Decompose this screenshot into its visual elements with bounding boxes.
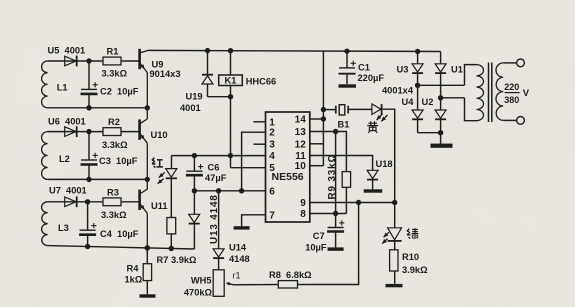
ground R10 <box>386 284 403 287</box>
node rail C1 <box>344 48 349 53</box>
svg-text:V: V <box>523 88 530 99</box>
node R7 bottom <box>169 246 174 251</box>
svg-text:220µF: 220µF <box>358 73 385 83</box>
transformer core <box>489 63 492 123</box>
wire Vcc top rail <box>148 50 441 51</box>
pin 8 number <box>300 209 306 220</box>
diode U2 <box>422 97 447 133</box>
pin 5 wire <box>231 167 266 169</box>
svg-text:14: 14 <box>295 115 307 126</box>
svg-text:R7 3.9kΩ: R7 3.9kΩ <box>157 255 198 265</box>
node C6 bottom <box>192 188 197 193</box>
svg-text:R8 6.8kΩ: R8 6.8kΩ <box>269 270 312 280</box>
svg-text:10µF: 10µF <box>305 242 327 252</box>
diode U1 <box>435 52 463 98</box>
diode U7 4001 <box>48 185 103 207</box>
svg-text:3: 3 <box>269 140 275 151</box>
svg-text:9: 9 <box>300 198 306 209</box>
node R4 top <box>145 245 150 250</box>
wire AC1 to transformer <box>418 84 465 86</box>
node rail bridge <box>415 49 420 54</box>
pin 1 stub <box>254 121 266 123</box>
svg-text:C1: C1 <box>358 63 370 73</box>
terminal bottom <box>517 117 525 125</box>
node pin13 junction <box>333 129 338 134</box>
wiper arrow r1 <box>226 271 241 286</box>
capacitor C6 47uF <box>186 156 227 191</box>
transistor U9 9014 <box>140 49 148 108</box>
wire ground bottom rail <box>48 246 195 249</box>
pin 7 number <box>269 210 275 221</box>
inductor L1 <box>42 61 68 108</box>
node pin6/U14 <box>216 188 221 193</box>
svg-text:L3: L3 <box>58 223 69 233</box>
wire base <box>121 60 139 62</box>
label U10 <box>151 130 168 140</box>
pin 3 stub <box>254 143 266 145</box>
node U10 emitter <box>145 177 150 182</box>
ground C1 <box>338 84 356 87</box>
svg-text:9014x3: 9014x3 <box>150 69 181 79</box>
wire stage1 bottom rail <box>48 107 148 109</box>
svg-text:7: 7 <box>269 210 275 221</box>
resistor R4 1k <box>125 248 152 294</box>
svg-text:WH5: WH5 <box>191 276 212 286</box>
node trigger/K1 <box>228 153 233 158</box>
svg-text:R3: R3 <box>107 187 119 197</box>
pin 12 wire <box>310 143 324 145</box>
svg-text:NE556: NE556 <box>272 171 304 183</box>
node pin6/pin2 <box>239 188 244 193</box>
terminal top <box>517 59 525 67</box>
pin 5 number <box>269 163 275 174</box>
svg-text:220: 220 <box>504 82 519 92</box>
label 4001x4 <box>382 86 414 96</box>
node pin8 junction <box>333 211 338 216</box>
svg-text:U2: U2 <box>422 97 434 107</box>
wire AC2 to transformer <box>441 97 465 99</box>
capacitor C7 10uF <box>305 214 344 253</box>
svg-text:10: 10 <box>295 161 307 172</box>
pin 8 wire <box>310 213 347 215</box>
svg-text:C4 10µF: C4 10µF <box>100 229 139 239</box>
svg-text:U19: U19 <box>186 92 203 102</box>
label 220/380V <box>504 82 530 105</box>
resistor R9 33k <box>327 132 351 214</box>
resistor R2 3.3k <box>102 117 128 150</box>
LED green <box>382 203 402 250</box>
capacitor C1 220uF <box>339 51 385 84</box>
svg-text:3.3kΩ: 3.3kΩ <box>101 210 127 220</box>
node bridge AC2 <box>438 95 443 100</box>
node bridge bottom <box>438 130 443 135</box>
inductor L3 <box>42 202 69 246</box>
svg-text:4: 4 <box>269 151 275 162</box>
svg-text:6: 6 <box>269 186 275 197</box>
diode U4 <box>402 85 424 132</box>
ground C7 <box>328 247 344 250</box>
pin 7 wire + ground <box>234 215 266 230</box>
node bridge AC1 <box>415 83 420 88</box>
node pin9/LED <box>392 200 397 205</box>
wire bridge bottom <box>418 132 441 134</box>
svg-text:12: 12 <box>295 139 307 150</box>
node C3 top <box>86 129 91 134</box>
svg-text:C7: C7 <box>313 231 325 241</box>
wire pin13 to pin8 <box>310 132 336 214</box>
LED yellow <box>372 104 388 122</box>
wire R8 to pin9 <box>298 203 359 285</box>
resistor R1 3.3k <box>102 47 128 79</box>
diode U5 4001 <box>48 46 104 67</box>
node U9 emitter <box>145 105 150 110</box>
capacitor C2 10uF <box>81 61 139 108</box>
node C6 top <box>192 153 197 158</box>
pin 9 number <box>300 198 306 209</box>
svg-text:B1: B1 <box>338 120 350 130</box>
svg-text:R1: R1 <box>107 47 119 57</box>
resistor R7 3.9k <box>157 218 198 265</box>
pin 2 number <box>269 128 275 139</box>
svg-text:U11: U11 <box>151 201 168 211</box>
transistor U10 9014 <box>140 108 148 180</box>
svg-text:C6: C6 <box>208 163 220 173</box>
svg-text:13: 13 <box>295 127 307 138</box>
svg-text:U10: U10 <box>151 130 168 140</box>
transformer secondary winding <box>496 63 517 121</box>
wire wiper to R8 <box>234 284 279 286</box>
capacitor C4 10uF <box>79 202 139 247</box>
inductor L2 <box>42 132 70 180</box>
relay K1 HHC66 <box>219 51 276 87</box>
svg-text:U7 4001: U7 4001 <box>49 185 87 195</box>
node C2 bottom <box>86 105 91 110</box>
svg-text:U14: U14 <box>229 242 247 252</box>
pin 2 wire <box>242 132 266 191</box>
svg-text:4148: 4148 <box>229 254 250 264</box>
svg-text:8: 8 <box>300 209 306 220</box>
transformer primary winding <box>465 65 484 121</box>
ground bridge <box>431 133 453 148</box>
svg-text:4001: 4001 <box>180 103 201 113</box>
diode U18 <box>367 159 392 189</box>
svg-text:3.3kΩ: 3.3kΩ <box>102 69 128 79</box>
pin 12 number <box>295 139 307 150</box>
pin 4 number <box>269 151 275 162</box>
ground R4 <box>140 294 156 297</box>
resistor R10 3.9k <box>390 250 428 284</box>
diode U14 4148 <box>213 191 250 270</box>
wire LED yellow down <box>382 109 395 202</box>
label yellow <box>367 121 378 133</box>
svg-text:1: 1 <box>269 117 275 128</box>
svg-text:U18: U18 <box>376 159 393 169</box>
svg-text:2: 2 <box>269 128 275 139</box>
node K1 bottom <box>228 94 233 99</box>
node rail K1 <box>228 48 233 53</box>
svg-text:U5 4001: U5 4001 <box>48 46 86 56</box>
svg-text:U3: U3 <box>397 65 409 75</box>
wire stage2 bottom rail <box>48 178 148 180</box>
svg-text:3.9kΩ: 3.9kΩ <box>402 265 428 275</box>
node C4 top <box>85 199 90 204</box>
node C3 bottom <box>86 177 91 182</box>
node B1 tap <box>321 107 326 112</box>
pin 14 stub <box>310 118 324 120</box>
transistor U11 9014 <box>140 179 148 247</box>
wire base <box>121 201 139 203</box>
svg-text:R4: R4 <box>127 263 140 273</box>
svg-text:47µF: 47µF <box>205 173 227 183</box>
wire trigger net <box>172 155 266 157</box>
node rail U19 <box>205 48 210 53</box>
label red <box>152 158 163 168</box>
pin 11 number <box>295 151 306 162</box>
wire base <box>121 131 139 133</box>
pin 10 wire <box>310 165 324 167</box>
svg-text:5: 5 <box>269 163 275 174</box>
diode U13 4148 <box>189 191 220 249</box>
svg-text:R10: R10 <box>402 252 419 262</box>
svg-text:R9 33kΩ: R9 33kΩ <box>327 154 338 200</box>
wire Vcc branch B1 <box>322 51 324 166</box>
pin 6 wire <box>194 190 265 192</box>
svg-text:U1: U1 <box>451 65 463 75</box>
svg-text:380: 380 <box>504 95 519 105</box>
svg-text:4001x4: 4001x4 <box>382 86 414 96</box>
svg-text:r1: r1 <box>233 271 241 281</box>
wire U19 to K1 <box>208 86 231 97</box>
potentiometer WH5 470k <box>184 270 224 298</box>
pin 11 wire <box>310 156 373 171</box>
pin 6 number <box>269 186 275 197</box>
svg-text:3.3kΩ: 3.3kΩ <box>102 140 128 150</box>
pin 10 number <box>295 161 307 172</box>
pin 1 number <box>269 117 275 128</box>
svg-text:C3 10µF: C3 10µF <box>99 156 138 166</box>
label U9 <box>150 59 181 78</box>
svg-text:1kΩ: 1kΩ <box>125 274 143 284</box>
label U11 <box>151 201 168 211</box>
svg-text:U4: U4 <box>402 97 415 107</box>
buzzer B1 <box>323 105 372 130</box>
node C2 top <box>86 58 91 63</box>
svg-text:R2: R2 <box>108 117 120 127</box>
diode U6 4001 <box>48 116 103 137</box>
svg-text:K1: K1 <box>225 76 237 86</box>
node pin14 tap <box>321 116 326 121</box>
node C4 bottom <box>85 244 90 249</box>
label green <box>407 228 419 239</box>
pin 9 wire <box>310 202 395 204</box>
pin 13 number <box>295 127 307 138</box>
svg-text:C2 10µF: C2 10µF <box>100 86 139 96</box>
node pin9/R8 <box>356 200 361 205</box>
svg-text:470kΩ: 470kΩ <box>184 287 213 297</box>
wire K1 to pin4/5 <box>230 97 232 168</box>
pin 14 number <box>295 115 307 126</box>
pin 3 number <box>269 140 275 151</box>
diode U3 <box>397 51 424 85</box>
svg-text:HHC66: HHC66 <box>246 76 276 86</box>
resistor R8 6.8k <box>269 270 312 288</box>
svg-text:U6 4001: U6 4001 <box>48 116 86 126</box>
ground U18 <box>364 189 383 192</box>
LED red indicator <box>158 156 177 218</box>
diode U19 4001 <box>180 51 213 113</box>
resistor R3 3.3k <box>101 187 127 220</box>
svg-text:L1: L1 <box>57 82 68 92</box>
capacitor C3 10uF <box>81 132 138 180</box>
node U11 emitter <box>145 245 150 250</box>
svg-text:L2: L2 <box>59 154 70 164</box>
IC U1 NE556 timer body <box>266 112 310 222</box>
